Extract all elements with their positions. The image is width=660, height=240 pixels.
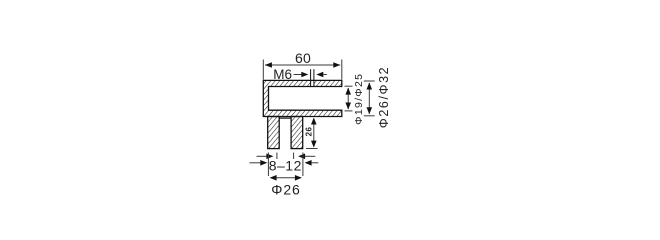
svg-text:60: 60 [295,50,311,66]
svg-text:26: 26 [305,127,314,137]
svg-text:Φ26: Φ26 [271,181,300,197]
svg-text:Φ19/Φ25: Φ19/Φ25 [353,73,365,125]
svg-text:M6: M6 [273,67,292,82]
svg-text:8–12: 8–12 [269,157,302,173]
svg-text:Φ26/Φ32: Φ26/Φ32 [377,66,391,128]
